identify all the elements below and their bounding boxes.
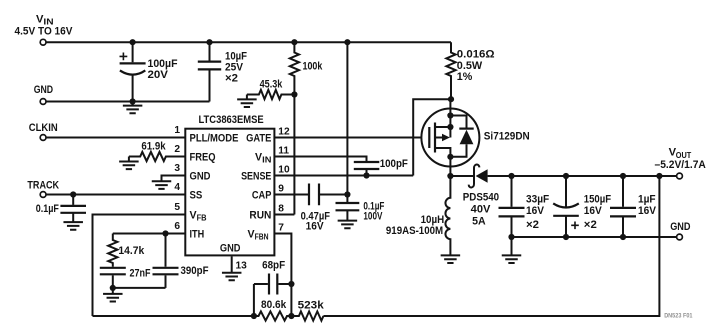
capacitor 68pF [254, 283, 268, 285]
svg-text:SENSE: SENSE [241, 171, 271, 183]
svg-text:GND: GND [220, 243, 241, 255]
svg-text:6: 6 [174, 221, 180, 232]
terminal VIN [40, 39, 46, 45]
capacitor 1uF [622, 176, 624, 207]
wire SENSE [274, 175, 413, 177]
junction VOUT/150uF [563, 173, 569, 179]
svg-text:13: 13 [236, 260, 248, 271]
svg-text:0.016Ω: 0.016Ω [457, 49, 495, 61]
svg-text:V: V [255, 152, 262, 164]
ground FREQ [128, 157, 130, 162]
junction CAP node [344, 191, 350, 197]
junction ITH/390pF [162, 230, 168, 236]
svg-text:GND: GND [34, 84, 53, 96]
wire CLKIN to pin1 [46, 137, 185, 139]
svg-text:100V: 100V [363, 211, 382, 223]
svg-text:V: V [248, 229, 255, 241]
svg-text:GND: GND [190, 171, 211, 183]
resistor 14.7k [108, 234, 117, 267]
svg-text:SS: SS [190, 190, 203, 202]
svg-text:4: 4 [174, 182, 180, 193]
svg-text:16V: 16V [526, 205, 544, 217]
svg-text:×2: ×2 [526, 219, 539, 231]
junction body diode tap [447, 112, 453, 118]
svg-text:ITH: ITH [190, 229, 205, 241]
svg-text:2: 2 [174, 144, 180, 155]
svg-text:×2: ×2 [225, 73, 238, 85]
junction sense node [448, 96, 454, 102]
svg-text:–5.2V/1.7A: –5.2V/1.7A [655, 159, 706, 171]
svg-text:20V: 20V [148, 69, 169, 81]
inductor 10uH [445, 176, 450, 255]
capacitor 10uF [209, 42, 211, 60]
svg-text:100k: 100k [303, 61, 323, 73]
junction rail/100uF [130, 39, 136, 45]
svg-text:14.7k: 14.7k [118, 245, 144, 257]
junction bus/33uF [508, 234, 514, 240]
op-amp U1 LTC3863EMSE box [185, 129, 274, 256]
resistor 0.016ohm [446, 42, 455, 99]
svg-text:FBN: FBN [255, 233, 269, 242]
wire pin13 [231, 256, 233, 272]
svg-text:68pF: 68pF [262, 260, 285, 272]
terminal VOUT [677, 173, 683, 179]
junction rail/68pF left [251, 313, 257, 319]
svg-text:61.9k: 61.9k [141, 140, 165, 152]
ground under 100uF [132, 102, 134, 106]
ground pin3 [152, 181, 172, 189]
svg-text:33µF: 33µF [526, 193, 550, 205]
svg-text:16V: 16V [584, 205, 602, 217]
terminal GND out [677, 234, 683, 240]
svg-text:1: 1 [174, 125, 180, 136]
svg-text:523k: 523k [298, 300, 324, 312]
wire GATE [274, 137, 429, 139]
svg-text:FB: FB [197, 214, 207, 223]
junction SENSE/100pF [363, 172, 369, 178]
svg-text:CAP: CAP [252, 190, 272, 202]
wire VFB [93, 215, 186, 317]
junction VOUT/1uF [620, 173, 626, 179]
ground inductor [441, 255, 461, 263]
svg-text:×2: ×2 [584, 219, 597, 231]
junction TRACK cap [70, 191, 76, 197]
svg-text:45.3k: 45.3k [260, 79, 283, 91]
svg-text:FREQ: FREQ [190, 152, 216, 164]
svg-text:Si7129DN: Si7129DN [484, 131, 530, 143]
svg-text:PDS540: PDS540 [463, 191, 499, 203]
svg-text:0.1µF: 0.1µF [36, 203, 60, 215]
junction SW node [447, 173, 453, 179]
svg-text:919AS-100M: 919AS-100M [386, 225, 443, 237]
junction rail/bypass [344, 39, 350, 45]
transistor Q1 Si7129DN [421, 109, 479, 167]
ground 0.1uF 100V [338, 221, 358, 229]
label + (100uF) [120, 53, 128, 61]
capacitor 100pF [354, 162, 380, 169]
ground pin13 [222, 273, 242, 281]
svg-text:10: 10 [278, 164, 290, 175]
terminal GND [40, 99, 46, 105]
wire VIN pin11 to 100pF [274, 157, 366, 162]
junction ITH network ground [110, 285, 116, 291]
capacitor 27nF [100, 268, 126, 275]
junction divider node [291, 91, 297, 97]
svg-text:390pF: 390pF [181, 265, 209, 277]
junction rail/VFBN [288, 313, 294, 319]
resistor 61.9k [129, 152, 185, 161]
junction rail/10uF [206, 39, 212, 45]
wire feedback rail right [323, 176, 659, 316]
wire TRACK to SS [46, 194, 185, 196]
wire 68pF left leg [253, 284, 255, 316]
svg-text:4.5V TO 16V: 4.5V TO 16V [15, 26, 73, 38]
capacitor 33uF [511, 176, 513, 207]
wire ITH network bottom [113, 287, 166, 289]
wire feedback rail left [93, 315, 254, 317]
wire RUN divider [274, 95, 294, 215]
svg-text:11: 11 [278, 145, 289, 156]
svg-text:16V: 16V [306, 220, 324, 232]
junction VOUT/feedback [656, 173, 662, 179]
junction rail/100k [291, 39, 297, 45]
junction drain stub [447, 154, 453, 160]
svg-text:LTC3863EMSE: LTC3863EMSE [199, 114, 264, 126]
svg-text:5A: 5A [472, 216, 486, 228]
diode PDS540 schottky [469, 165, 480, 188]
wire VIN rail [46, 41, 451, 43]
svg-text:IN: IN [262, 156, 272, 165]
svg-text:9: 9 [278, 183, 284, 194]
wire VFBN [274, 234, 291, 317]
wire ITH [113, 233, 186, 235]
ground SS cap [63, 222, 83, 230]
capacitor 0.1uF 100V [346, 195, 348, 203]
wire GND [46, 101, 210, 103]
wire VOUT rail [488, 175, 677, 177]
capacitor 100uF electrolytic [132, 42, 134, 62]
wire VIN bypass branch [346, 42, 348, 194]
wire SENSE kelvin [413, 99, 451, 175]
svg-text:V: V [190, 210, 197, 222]
wire pin3 GND [162, 176, 186, 182]
capacitor 0.47uF [274, 194, 309, 196]
svg-text:40V: 40V [471, 204, 491, 216]
svg-text:100pF: 100pF [380, 158, 409, 170]
ground ITH network [112, 288, 114, 294]
svg-text:3: 3 [174, 163, 180, 174]
svg-text:80.6k: 80.6k [261, 299, 286, 311]
svg-text:5: 5 [174, 202, 180, 213]
junction GND/100uF [130, 98, 136, 104]
svg-text:27nF: 27nF [130, 267, 151, 279]
svg-text:12: 12 [278, 126, 290, 137]
terminal CLKIN [40, 135, 46, 141]
junction VFBN/68pF [288, 281, 294, 287]
svg-text:16V: 16V [638, 205, 656, 217]
junction source stub [447, 124, 453, 130]
body diode [450, 116, 466, 157]
svg-text:TRACK: TRACK [27, 179, 59, 191]
resistor 100k [290, 42, 299, 94]
terminal TRACK [40, 192, 46, 198]
junction bus/150uF [563, 234, 569, 240]
capacitor 0.1uF (SS) [72, 195, 74, 205]
label + (150uF) [571, 222, 579, 230]
resistor 45.3k [247, 90, 295, 99]
ground 45.3k [246, 95, 248, 100]
svg-text:RUN: RUN [249, 210, 271, 222]
svg-text:GND: GND [670, 221, 690, 233]
wire GND bus [512, 236, 677, 238]
svg-text:CLKIN: CLKIN [29, 122, 58, 134]
svg-text:150µF: 150µF [584, 193, 612, 205]
svg-text:1%: 1% [457, 71, 473, 83]
resistor 80.6k [254, 311, 292, 320]
svg-text:7: 7 [278, 222, 284, 233]
ground output bus [511, 237, 513, 255]
capacitor 150uF electrolytic [565, 176, 567, 207]
junction VOUT/33uF [508, 173, 514, 179]
svg-text:GATE: GATE [246, 133, 271, 145]
wire SW to diode [450, 175, 473, 177]
svg-text:8: 8 [278, 203, 284, 214]
resistor 523k [291, 311, 323, 320]
junction bus/1uF [620, 234, 626, 240]
capacitor 390pF [165, 234, 167, 267]
svg-text:PLL/MODE: PLL/MODE [190, 133, 239, 145]
svg-text:DN523 F01: DN523 F01 [664, 313, 692, 320]
svg-text:1µF: 1µF [638, 193, 656, 205]
